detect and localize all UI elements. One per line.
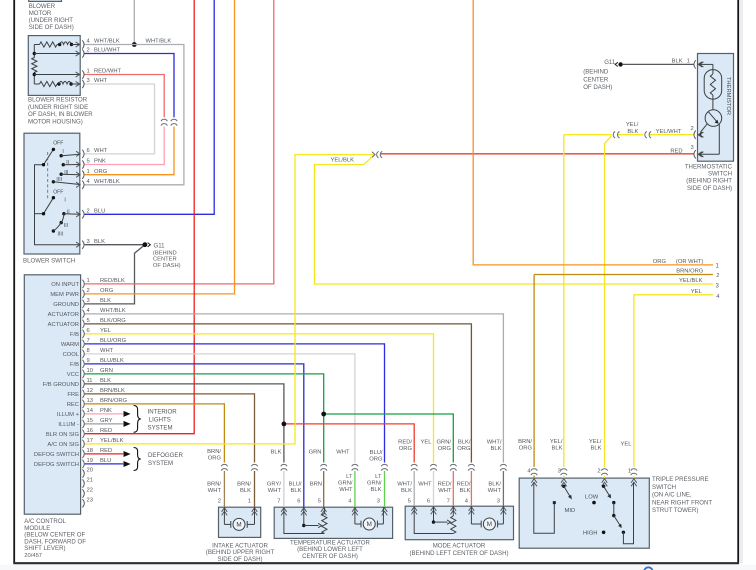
svg-text:RED/WHT: RED/WHT: [94, 69, 122, 75]
svg-text:5: 5: [408, 498, 411, 504]
svg-text:THERMOSTATIC: THERMOSTATIC: [685, 163, 733, 170]
svg-text:YEL: YEL: [621, 441, 633, 447]
svg-text:7: 7: [447, 498, 450, 504]
svg-text:PNK: PNK: [100, 408, 112, 414]
svg-text:2: 2: [716, 273, 719, 279]
svg-text:NEAR RIGHT FRONT: NEAR RIGHT FRONT: [652, 499, 712, 506]
svg-text:(ON A/C LINE,: (ON A/C LINE,: [652, 492, 692, 499]
svg-text:BRN/: BRN/: [518, 439, 532, 445]
svg-text:ORG: ORG: [208, 456, 222, 462]
svg-text:G11: G11: [604, 59, 616, 66]
svg-text:RED/: RED/: [398, 440, 412, 446]
svg-text:6: 6: [87, 328, 90, 334]
svg-text:BLK: BLK: [100, 378, 111, 384]
svg-text:16: 16: [87, 428, 93, 434]
svg-text:ORG: ORG: [438, 446, 452, 452]
svg-text:M: M: [236, 522, 241, 529]
svg-text:OFF: OFF: [53, 189, 63, 195]
svg-text:BLK: BLK: [94, 239, 105, 245]
svg-text:CENTER OF DASH): CENTER OF DASH): [302, 553, 358, 560]
svg-text:WHT: WHT: [438, 488, 452, 494]
svg-text:GRN/: GRN/: [437, 440, 452, 446]
svg-text:DEFOGGER: DEFOGGER: [148, 452, 183, 459]
svg-text:MOTOR HOUSING): MOTOR HOUSING): [28, 118, 83, 125]
svg-text:BLU/: BLU/: [370, 450, 383, 456]
svg-text:SYSTEM: SYSTEM: [148, 460, 173, 467]
svg-text:PNK: PNK: [94, 159, 106, 165]
svg-text:BLR ON SIG: BLR ON SIG: [46, 432, 80, 438]
svg-text:GRN: GRN: [100, 368, 113, 374]
svg-text:WHT: WHT: [336, 450, 350, 456]
svg-text:BLU/WHT: BLU/WHT: [94, 48, 121, 54]
svg-text:STRUT TOWER): STRUT TOWER): [652, 507, 698, 514]
svg-text:WHT/: WHT/: [397, 482, 412, 488]
svg-text:1: 1: [628, 468, 631, 474]
svg-text:17: 17: [87, 438, 93, 444]
svg-text:7: 7: [277, 498, 280, 504]
svg-text:7: 7: [87, 338, 90, 344]
svg-text:RED/BLK: RED/BLK: [100, 278, 125, 284]
svg-text:(UNDER RIGHT SIDE: (UNDER RIGHT SIDE: [28, 104, 88, 111]
svg-text:6: 6: [87, 148, 90, 154]
svg-text:SYSTEM: SYSTEM: [148, 425, 173, 432]
svg-text:YEL/: YEL/: [626, 122, 639, 128]
svg-text:BLK: BLK: [460, 488, 471, 494]
svg-text:14: 14: [87, 408, 94, 414]
svg-text:ACTUATOR: ACTUATOR: [48, 312, 79, 318]
svg-text:RED/: RED/: [438, 482, 452, 488]
svg-text:INTERIOR: INTERIOR: [148, 409, 178, 416]
svg-text:III: III: [64, 223, 68, 229]
svg-text:(BEHIND LEFT CENTER OF DASH): (BEHIND LEFT CENTER OF DASH): [409, 550, 508, 557]
svg-text:(BEHIND RIGHT: (BEHIND RIGHT: [686, 178, 732, 185]
svg-text:(BEHIND: (BEHIND: [153, 250, 177, 256]
svg-text:F/B: F/B: [70, 332, 79, 338]
svg-text:I: I: [64, 197, 65, 203]
svg-text:BLU/ORG: BLU/ORG: [100, 338, 127, 344]
svg-text:II: II: [66, 160, 69, 166]
svg-text:20/457: 20/457: [24, 553, 42, 559]
svg-text:WHT: WHT: [100, 348, 114, 354]
svg-text:VCC: VCC: [67, 372, 79, 378]
svg-text:1: 1: [87, 278, 90, 284]
svg-text:WHT/: WHT/: [487, 440, 502, 446]
svg-text:FRE: FRE: [67, 392, 79, 398]
svg-text:9: 9: [87, 358, 90, 364]
svg-text:GROUND: GROUND: [53, 302, 79, 308]
svg-text:YEL: YEL: [100, 328, 112, 334]
svg-text:8: 8: [87, 348, 90, 354]
svg-text:MID: MID: [565, 508, 576, 514]
svg-text:GRY/: GRY/: [267, 482, 281, 488]
svg-text:OF DASH): OF DASH): [153, 263, 181, 269]
svg-text:CENTER: CENTER: [153, 257, 177, 263]
svg-text:SHIFT LEVER): SHIFT LEVER): [24, 545, 65, 552]
svg-text:CENTER: CENTER: [583, 76, 609, 83]
svg-text:1: 1: [87, 169, 90, 175]
svg-text:YEL/BLK: YEL/BLK: [100, 438, 124, 444]
svg-text:DEFOG SWITCH: DEFOG SWITCH: [34, 452, 79, 458]
svg-text:6: 6: [427, 498, 430, 504]
svg-text:BLK: BLK: [672, 59, 683, 65]
svg-text:23: 23: [87, 497, 93, 503]
svg-text:BLOWER SWITCH: BLOWER SWITCH: [23, 257, 75, 264]
svg-text:BLK: BLK: [271, 450, 282, 456]
svg-text:DEFOG SWITCH: DEFOG SWITCH: [34, 462, 79, 468]
svg-text:BLK: BLK: [591, 446, 602, 452]
svg-text:ACTUATOR: ACTUATOR: [48, 322, 79, 328]
svg-text:BRN/: BRN/: [207, 449, 221, 455]
svg-text:YEL/BLK: YEL/BLK: [330, 157, 354, 163]
svg-text:10: 10: [87, 368, 93, 374]
svg-text:1: 1: [687, 59, 690, 65]
svg-text:ORG: ORG: [519, 446, 533, 452]
svg-text:ILLUM -: ILLUM -: [58, 422, 79, 428]
svg-text:LT: LT: [375, 474, 382, 480]
svg-text:WHT: WHT: [488, 488, 502, 494]
svg-text:SIDE OF DASH): SIDE OF DASH): [687, 185, 732, 192]
svg-text:THERMISTOR: THERMISTOR: [725, 77, 731, 115]
svg-text:RED: RED: [100, 428, 112, 434]
svg-text:3: 3: [497, 498, 500, 504]
svg-text:13: 13: [87, 398, 93, 404]
svg-text:G11: G11: [154, 242, 166, 249]
svg-text:5: 5: [87, 159, 90, 165]
svg-text:GRN/: GRN/: [367, 481, 382, 487]
svg-text:BLK: BLK: [491, 446, 502, 452]
svg-text:ORG: ORG: [369, 457, 383, 463]
svg-text:WHT/BLK: WHT/BLK: [100, 308, 126, 314]
svg-text:BLK/: BLK/: [488, 482, 501, 488]
svg-text:ORG: ORG: [94, 169, 108, 175]
svg-text:19: 19: [87, 458, 93, 464]
svg-text:ORG: ORG: [399, 446, 413, 452]
svg-text:TRIPLE PRESSURE: TRIPLE PRESSURE: [652, 476, 709, 483]
svg-text:18: 18: [87, 448, 93, 454]
svg-text:2: 2: [87, 288, 90, 294]
svg-text:BRN/ORG: BRN/ORG: [676, 269, 704, 275]
svg-text:3: 3: [691, 145, 694, 151]
svg-text:SWITCH: SWITCH: [652, 484, 676, 491]
svg-text:BLK: BLK: [371, 487, 382, 493]
svg-text:WHT: WHT: [268, 488, 282, 494]
svg-text:YEL/WHT: YEL/WHT: [656, 129, 682, 135]
svg-text:RED: RED: [100, 448, 112, 454]
svg-text:F/B: F/B: [70, 362, 79, 368]
svg-text:WHT: WHT: [94, 78, 108, 84]
svg-text:BLK: BLK: [291, 488, 302, 494]
svg-text:ORG: ORG: [653, 259, 667, 265]
svg-text:IIII: IIII: [56, 177, 62, 183]
svg-text:MODE ACTUATOR: MODE ACTUATOR: [433, 543, 486, 550]
svg-text:WHT: WHT: [208, 488, 222, 494]
svg-text:BLU: BLU: [100, 458, 111, 464]
svg-text:21: 21: [87, 478, 93, 484]
svg-text:ILLUM +: ILLUM +: [57, 412, 80, 418]
svg-text:BRN/ORG: BRN/ORG: [100, 398, 128, 404]
svg-text:15: 15: [87, 418, 93, 424]
svg-text:BLU/BLK: BLU/BLK: [100, 358, 124, 364]
svg-text:BLU/: BLU/: [289, 482, 302, 488]
svg-text:2: 2: [87, 208, 90, 214]
svg-text:III: III: [64, 170, 68, 176]
svg-text:F/B GROUND: F/B GROUND: [43, 382, 79, 388]
svg-text:OF DASH, IN BLOWER: OF DASH, IN BLOWER: [28, 111, 93, 118]
svg-text:RED: RED: [670, 148, 682, 154]
svg-text:M: M: [367, 521, 372, 528]
svg-text:GRY: GRY: [100, 418, 113, 424]
svg-text:SWITCH: SWITCH: [708, 171, 732, 178]
svg-text:(OR WHT): (OR WHT): [676, 259, 703, 265]
svg-text:WHT/BLK: WHT/BLK: [94, 39, 120, 45]
svg-text:LT: LT: [346, 474, 353, 480]
svg-text:BRN/: BRN/: [237, 482, 251, 488]
svg-text:SIDE OF DASH): SIDE OF DASH): [29, 24, 74, 31]
svg-text:M: M: [487, 521, 492, 528]
svg-text:6: 6: [297, 498, 300, 504]
svg-text:3: 3: [87, 239, 90, 245]
svg-text:OFF: OFF: [53, 141, 63, 147]
svg-text:COOL: COOL: [63, 352, 80, 358]
svg-text:YEL: YEL: [421, 440, 433, 446]
svg-text:WHT/BLK: WHT/BLK: [94, 179, 120, 185]
svg-text:3: 3: [377, 498, 380, 504]
svg-text:BLK: BLK: [627, 129, 638, 135]
svg-text:GRN/: GRN/: [338, 481, 353, 487]
svg-text:BLOWER RESISTOR: BLOWER RESISTOR: [28, 97, 88, 104]
svg-text:OF DASH): OF DASH): [583, 84, 612, 91]
svg-text:GRN: GRN: [309, 450, 322, 456]
svg-text:BRN/: BRN/: [207, 482, 221, 488]
svg-text:2: 2: [218, 498, 221, 504]
svg-text:3: 3: [558, 468, 561, 474]
svg-text:WHT: WHT: [339, 487, 353, 493]
svg-text:WHT: WHT: [94, 148, 108, 154]
svg-text:A/C ON SIG: A/C ON SIG: [47, 442, 79, 448]
svg-text:WHT/BLK: WHT/BLK: [146, 39, 172, 45]
svg-text:BLK: BLK: [100, 298, 111, 304]
svg-text:ON INPUT: ON INPUT: [51, 282, 79, 288]
svg-text:HIGH: HIGH: [583, 531, 598, 537]
svg-text:BRN: BRN: [310, 482, 322, 488]
svg-text:(BEHIND: (BEHIND: [583, 69, 609, 76]
svg-text:BLK/ORG: BLK/ORG: [100, 318, 126, 324]
svg-text:2: 2: [87, 48, 90, 54]
svg-text:BLU: BLU: [94, 208, 105, 214]
svg-text:ORG: ORG: [100, 288, 114, 294]
svg-text:YEL/BLK: YEL/BLK: [679, 278, 703, 284]
svg-text:11: 11: [87, 378, 93, 384]
svg-text:WHT: WHT: [418, 482, 432, 488]
svg-text:YEL/: YEL/: [550, 439, 563, 445]
svg-text:BLK: BLK: [401, 488, 412, 494]
svg-text:WARM: WARM: [61, 342, 79, 348]
svg-text:II: II: [67, 209, 70, 215]
svg-text:YEL/: YEL/: [589, 439, 602, 445]
svg-text:SIDE OF DASH): SIDE OF DASH): [217, 556, 262, 563]
svg-text:I: I: [62, 149, 63, 155]
svg-text:1: 1: [87, 69, 90, 75]
svg-text:3: 3: [87, 78, 90, 84]
svg-text:5: 5: [318, 498, 321, 504]
svg-text:LOW: LOW: [585, 495, 599, 501]
svg-text:MEM PWR: MEM PWR: [50, 292, 79, 298]
svg-text:YEL: YEL: [691, 289, 703, 295]
svg-text:2: 2: [597, 468, 600, 474]
svg-text:RED/: RED/: [457, 482, 471, 488]
svg-text:2: 2: [691, 126, 694, 132]
svg-text:ORG: ORG: [457, 446, 471, 452]
svg-text:BLK: BLK: [552, 446, 563, 452]
svg-text:BLK: BLK: [240, 488, 251, 494]
svg-text:IIII: IIII: [58, 232, 64, 238]
svg-text:1: 1: [248, 498, 251, 504]
svg-text:12: 12: [87, 388, 93, 394]
svg-text:BLK/: BLK/: [458, 440, 471, 446]
svg-text:22: 22: [87, 488, 93, 494]
svg-text:5: 5: [87, 318, 90, 324]
svg-text:20: 20: [87, 468, 93, 474]
svg-text:REC: REC: [67, 402, 79, 408]
svg-text:BRN/BLK: BRN/BLK: [100, 388, 125, 394]
svg-text:3: 3: [87, 298, 90, 304]
svg-text:LIGHTS: LIGHTS: [149, 417, 171, 424]
